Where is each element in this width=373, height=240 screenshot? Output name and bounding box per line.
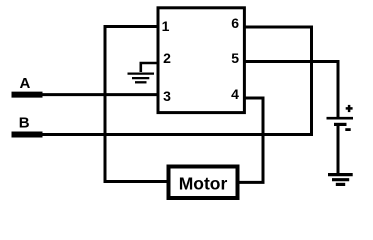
svg-text:2: 2 xyxy=(163,50,171,66)
svg-text:A: A xyxy=(19,75,30,92)
svg-text:B: B xyxy=(19,114,30,131)
svg-text:5: 5 xyxy=(231,50,239,66)
svg-text:6: 6 xyxy=(231,15,239,31)
svg-text:4: 4 xyxy=(231,86,239,102)
svg-text:3: 3 xyxy=(163,88,171,104)
svg-text:1: 1 xyxy=(162,18,170,34)
svg-text:Motor: Motor xyxy=(179,174,228,194)
